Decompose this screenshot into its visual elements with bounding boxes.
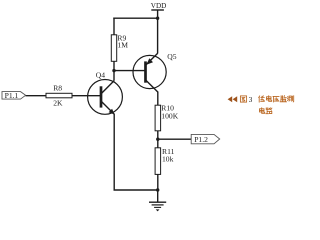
svg-text:P1.1: P1.1 xyxy=(5,91,19,100)
svg-text:100K: 100K xyxy=(161,112,178,121)
svg-text:Q5: Q5 xyxy=(167,52,176,61)
svg-text:2K: 2K xyxy=(53,99,63,108)
svg-text:Q4: Q4 xyxy=(96,71,105,80)
svg-text:3: 3 xyxy=(249,95,253,104)
svg-text:P1.2: P1.2 xyxy=(194,135,208,144)
svg-text:R8: R8 xyxy=(53,84,62,93)
svg-text:VDD: VDD xyxy=(151,2,167,10)
svg-text:1M: 1M xyxy=(117,40,128,49)
svg-text:10k: 10k xyxy=(162,154,174,163)
